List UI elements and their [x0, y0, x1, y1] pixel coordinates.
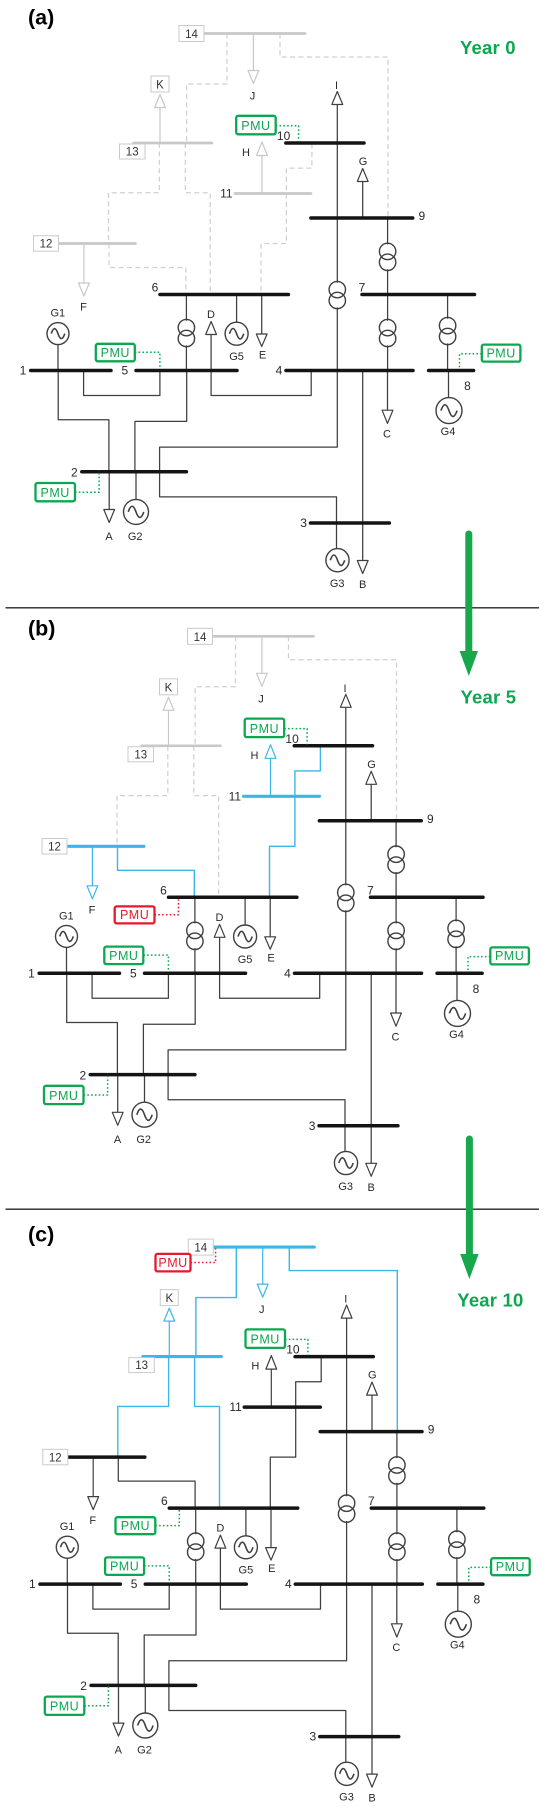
svg-text:1: 1 — [28, 966, 35, 980]
svg-text:Year 5: Year 5 — [461, 687, 517, 708]
load D at bus 4 — [215, 1523, 321, 1610]
wire 1-5 — [84, 371, 160, 396]
transformer 5-6 — [188, 1508, 204, 1584]
wire 2-4 — [169, 1584, 347, 1685]
bus 2 — [80, 1679, 195, 1693]
wire 2-3 — [160, 472, 337, 523]
generator G5 — [225, 295, 248, 364]
svg-text:12: 12 — [49, 1452, 62, 1464]
svg-text:C: C — [392, 1031, 400, 1043]
load I at bus 10 — [341, 1294, 352, 1357]
transformer 7-8 — [439, 295, 455, 371]
generator G4 — [436, 371, 462, 439]
svg-text:PMU: PMU — [109, 949, 138, 963]
bus 9 — [320, 1423, 435, 1437]
svg-text:5: 5 — [130, 966, 137, 980]
bus 11 — [229, 1400, 320, 1414]
svg-text:14: 14 — [185, 29, 198, 41]
svg-text:(c): (c) — [28, 1223, 54, 1247]
wire 1-5 — [93, 1584, 169, 1609]
svg-text:6: 6 — [161, 1494, 168, 1508]
svg-text:13: 13 — [135, 1360, 148, 1372]
wire 13-6 — [195, 1357, 220, 1509]
svg-text:7: 7 — [368, 1494, 375, 1508]
svg-text:G1: G1 — [59, 910, 74, 922]
bus 13 — [128, 746, 221, 762]
svg-text:B: B — [368, 1793, 375, 1805]
svg-text:Year 0: Year 0 — [460, 37, 516, 58]
wire 5-2 — [143, 973, 195, 1074]
svg-text:J: J — [250, 91, 256, 103]
svg-text:I: I — [335, 80, 338, 92]
svg-text:A: A — [115, 1745, 123, 1757]
transformer 7-8 — [449, 1508, 465, 1584]
PMU at bus 8 — [469, 1558, 530, 1582]
svg-text:1: 1 — [29, 1577, 36, 1591]
load G at bus 9 — [366, 759, 377, 821]
svg-text:PMU: PMU — [41, 486, 70, 500]
PMU at bus 6 — [115, 899, 179, 924]
wire 10-9 — [336, 143, 338, 218]
bus 2 — [79, 1068, 194, 1082]
bus 7 — [359, 281, 475, 295]
PMU at bus 8 — [460, 345, 521, 369]
PMU at bus 5 — [104, 947, 168, 972]
svg-text:F: F — [89, 1515, 96, 1527]
wire 11-6 — [270, 796, 295, 897]
svg-text:G: G — [359, 156, 368, 168]
svg-text:6: 6 — [160, 883, 167, 897]
svg-text:12: 12 — [48, 842, 61, 854]
svg-text:F: F — [80, 302, 87, 314]
separator line 2 — [6, 1208, 539, 1210]
PMU at bus 2 — [45, 1684, 109, 1715]
load F at bus 12 — [79, 244, 90, 314]
svg-text:A: A — [114, 1134, 122, 1146]
generator G3 — [335, 1737, 358, 1804]
wire 10-9 — [345, 746, 347, 821]
svg-text:4: 4 — [284, 966, 291, 980]
wire 1-2 — [67, 973, 118, 1074]
year label Year 10 — [457, 1290, 523, 1311]
separator line 1 — [6, 607, 539, 609]
PMU at bus 6 — [116, 1509, 180, 1534]
svg-text:PMU: PMU — [241, 119, 270, 133]
bus 5 — [130, 966, 246, 980]
wire 1-5 — [92, 973, 168, 998]
wire 5-2 — [135, 371, 187, 472]
generator G1 — [56, 1521, 78, 1584]
svg-text:11: 11 — [229, 789, 242, 803]
bus 11 — [220, 187, 311, 201]
svg-text:K: K — [165, 682, 173, 694]
wire 2-3 — [168, 1075, 345, 1126]
wire 1-2 — [58, 371, 109, 472]
load B at bus 4 — [366, 973, 377, 1194]
svg-text:G5: G5 — [238, 954, 253, 966]
svg-text:10: 10 — [285, 732, 299, 746]
generator G1 — [47, 308, 69, 371]
load G at bus 9 — [357, 156, 368, 218]
wire 14-9 — [289, 636, 397, 821]
generator G2 — [133, 1685, 158, 1756]
wire 13-12 — [109, 143, 160, 244]
year label Year 0 — [460, 37, 516, 58]
bus 13 — [120, 143, 213, 159]
svg-text:J: J — [258, 693, 264, 705]
load B at bus 4 — [357, 371, 368, 592]
svg-text:F: F — [89, 904, 96, 916]
svg-text:9: 9 — [428, 1423, 435, 1437]
svg-text:E: E — [259, 350, 266, 362]
svg-text:2: 2 — [79, 1068, 86, 1082]
green arrow Year 5 to Year 10 — [460, 1139, 478, 1279]
load E at bus 6 — [256, 295, 267, 362]
svg-text:C: C — [392, 1642, 400, 1654]
svg-text:G5: G5 — [229, 351, 244, 363]
svg-text:8: 8 — [473, 982, 480, 996]
svg-text:PMU: PMU — [120, 908, 149, 922]
bus 12 — [34, 236, 136, 252]
svg-text:PMU: PMU — [158, 1256, 187, 1270]
transformer 5-6 — [178, 295, 194, 371]
load K at bus 13 — [151, 76, 169, 143]
load J at bus 14 — [257, 636, 268, 705]
svg-text:D: D — [216, 1523, 224, 1535]
wire 13-6 — [185, 143, 210, 295]
svg-text:I: I — [343, 683, 346, 695]
wire 14-13 — [187, 34, 227, 144]
svg-text:5: 5 — [121, 364, 128, 378]
load J at bus 14 — [257, 1247, 268, 1316]
svg-text:K: K — [165, 1293, 173, 1305]
bus 8 — [437, 973, 482, 996]
load J at bus 14 — [248, 34, 259, 103]
wire 12-6 — [109, 244, 186, 295]
load A at bus 2 — [104, 472, 115, 543]
svg-text:11: 11 — [220, 187, 233, 201]
load H at bus 11 — [242, 142, 267, 194]
load I at bus 10 — [332, 80, 343, 143]
PMU at bus 5 — [96, 344, 160, 369]
svg-text:8: 8 — [464, 379, 471, 393]
svg-text:2: 2 — [71, 466, 78, 480]
svg-text:3: 3 — [309, 1119, 316, 1133]
svg-text:PMU: PMU — [49, 1089, 78, 1103]
load K at bus 13 — [160, 1290, 178, 1357]
bus 10 — [286, 1343, 373, 1357]
wire 14-13 — [196, 1247, 236, 1357]
generator G5 — [234, 1508, 257, 1577]
year label Year 5 — [461, 687, 517, 708]
svg-text:6: 6 — [152, 281, 159, 295]
wire 5-2 — [144, 1584, 196, 1685]
svg-text:PMU: PMU — [250, 722, 279, 736]
green arrow Year 0 to Year 5 — [460, 534, 478, 676]
svg-text:A: A — [105, 531, 113, 543]
transformer 7-9 — [389, 1432, 405, 1509]
svg-text:G2: G2 — [136, 1134, 151, 1146]
load A at bus 2 — [113, 1685, 124, 1756]
svg-text:G1: G1 — [50, 308, 65, 320]
bus 10 — [277, 129, 364, 143]
generator G2 — [132, 1075, 157, 1146]
bus 6 — [152, 281, 289, 295]
bus 14 — [188, 628, 314, 644]
svg-text:Year 10: Year 10 — [457, 1290, 523, 1311]
bus 10 — [285, 732, 372, 746]
bus 6 — [161, 1494, 298, 1508]
transformer 4-9 — [338, 821, 354, 974]
bus 4 — [284, 966, 421, 980]
svg-text:12: 12 — [40, 239, 53, 251]
svg-text:4: 4 — [276, 364, 283, 378]
svg-text:G3: G3 — [338, 1181, 353, 1193]
svg-text:PMU: PMU — [121, 1519, 150, 1533]
transformer 5-6 — [187, 897, 203, 973]
svg-text:I: I — [344, 1294, 347, 1306]
svg-text:PMU: PMU — [101, 346, 130, 360]
svg-text:G4: G4 — [450, 1640, 465, 1652]
wire 2-4 — [160, 371, 338, 472]
panel label (c) — [28, 1223, 54, 1247]
svg-text:H: H — [251, 1361, 259, 1373]
transformer 4-9 — [329, 218, 345, 371]
bus 1 — [20, 364, 111, 378]
bus 9 — [319, 812, 434, 826]
panel label (a) — [28, 6, 54, 30]
wire 10-11 — [286, 144, 312, 194]
bus 7 — [368, 1494, 484, 1508]
bus 14 — [188, 1239, 314, 1255]
svg-text:(b): (b) — [28, 617, 55, 641]
PMU at bus 10 — [236, 116, 298, 142]
svg-text:G: G — [367, 759, 376, 771]
load I at bus 10 — [340, 683, 351, 746]
svg-text:1: 1 — [20, 364, 27, 378]
svg-text:5: 5 — [131, 1577, 138, 1591]
wire 13-6 — [194, 746, 219, 898]
wire 14-13 — [195, 636, 235, 746]
svg-text:G5: G5 — [239, 1565, 254, 1577]
bus 6 — [160, 883, 297, 897]
transformer 4-7 — [389, 1508, 405, 1584]
load H at bus 11 — [251, 745, 276, 797]
wire 13-12 — [118, 1357, 169, 1458]
bus 8 — [438, 1584, 483, 1607]
svg-text:14: 14 — [194, 632, 207, 644]
svg-text:E: E — [268, 1563, 275, 1575]
PMU at bus 10 — [246, 1329, 308, 1355]
svg-text:K: K — [156, 80, 164, 92]
bus 13 — [129, 1357, 222, 1373]
PMU at bus 10 — [245, 719, 307, 745]
bus 12 — [42, 839, 144, 855]
generator G3 — [326, 523, 349, 590]
bus 1 — [29, 1577, 120, 1591]
svg-text:PMU: PMU — [486, 346, 515, 360]
svg-text:13: 13 — [126, 147, 139, 159]
PMU at bus 5 — [105, 1557, 169, 1582]
svg-text:(a): (a) — [28, 6, 54, 30]
svg-text:9: 9 — [427, 812, 434, 826]
generator G4 — [445, 1584, 471, 1652]
transformer 4-7 — [388, 897, 404, 973]
bus 8 — [429, 371, 474, 394]
svg-text:9: 9 — [418, 209, 425, 223]
load G at bus 9 — [367, 1370, 378, 1432]
svg-text:B: B — [368, 1182, 375, 1194]
load K at bus 13 — [160, 679, 178, 746]
svg-text:D: D — [207, 309, 215, 321]
transformer 7-8 — [448, 897, 464, 973]
wire 10-11 — [295, 746, 321, 796]
svg-text:PMU: PMU — [110, 1560, 139, 1574]
transformer 4-9 — [338, 1432, 354, 1585]
load C at bus 4 — [391, 1584, 402, 1654]
load C at bus 4 — [391, 973, 402, 1043]
wire 13-12 — [117, 746, 168, 847]
wire 14-9 — [280, 34, 388, 219]
svg-text:PMU: PMU — [50, 1700, 79, 1714]
wire 12-6 — [118, 846, 195, 897]
svg-text:G2: G2 — [128, 531, 143, 543]
wire 11-6 — [261, 194, 286, 295]
bus 1 — [28, 966, 119, 980]
wire 11-6 — [270, 1407, 295, 1508]
PMU at bus 14 — [156, 1248, 216, 1271]
svg-text:2: 2 — [80, 1679, 87, 1693]
svg-text:G3: G3 — [339, 1792, 354, 1804]
generator G5 — [234, 897, 257, 966]
bus 5 — [121, 364, 237, 378]
wire 1-2 — [68, 1584, 119, 1685]
svg-text:H: H — [242, 147, 250, 159]
svg-text:G4: G4 — [449, 1029, 464, 1041]
bus 3 — [310, 1730, 399, 1744]
wire 12-6 — [118, 1457, 195, 1508]
wire 10-11 — [296, 1357, 322, 1407]
load F at bus 12 — [88, 1457, 99, 1527]
bus 12 — [43, 1449, 145, 1465]
bus 7 — [367, 883, 483, 897]
svg-text:PMU: PMU — [251, 1333, 280, 1347]
svg-text:B: B — [359, 579, 366, 591]
load E at bus 6 — [266, 1508, 277, 1575]
load C at bus 4 — [382, 371, 393, 441]
generator G1 — [56, 910, 78, 973]
load F at bus 12 — [87, 846, 98, 916]
transformer 7-9 — [379, 218, 395, 295]
transformer 4-7 — [379, 295, 395, 371]
panel label (b) — [28, 617, 55, 641]
load D at bus 4 — [214, 912, 320, 999]
bus 3 — [309, 1119, 398, 1133]
svg-text:PMU: PMU — [495, 949, 524, 963]
svg-text:7: 7 — [367, 883, 374, 897]
svg-text:14: 14 — [194, 1243, 207, 1255]
svg-text:G3: G3 — [330, 578, 345, 590]
load D at bus 4 — [206, 309, 312, 396]
generator G3 — [334, 1126, 357, 1193]
PMU at bus 2 — [44, 1073, 108, 1104]
svg-text:PMU: PMU — [496, 1560, 525, 1574]
PMU at bus 8 — [468, 947, 529, 971]
wire 10-9 — [346, 1357, 348, 1432]
load E at bus 6 — [265, 897, 276, 964]
wire 2-3 — [169, 1685, 346, 1736]
generator G2 — [124, 472, 149, 543]
bus 5 — [131, 1577, 247, 1591]
svg-text:H: H — [251, 750, 259, 762]
svg-text:3: 3 — [310, 1730, 317, 1744]
bus 9 — [311, 209, 426, 223]
svg-text:C: C — [383, 429, 391, 441]
svg-text:7: 7 — [359, 281, 366, 295]
svg-text:3: 3 — [300, 516, 307, 530]
bus 4 — [285, 1577, 422, 1591]
bus 11 — [229, 789, 320, 803]
PMU at bus 2 — [36, 471, 100, 502]
svg-text:G1: G1 — [60, 1521, 75, 1533]
bus 3 — [300, 516, 389, 530]
load H at bus 11 — [251, 1356, 276, 1408]
wire 2-4 — [168, 973, 346, 1074]
svg-text:11: 11 — [229, 1400, 242, 1414]
bus 14 — [179, 26, 305, 42]
svg-text:G4: G4 — [441, 426, 456, 438]
generator G4 — [445, 973, 471, 1041]
svg-text:G: G — [368, 1370, 377, 1382]
bus 4 — [276, 364, 413, 378]
svg-text:J: J — [259, 1304, 265, 1316]
load A at bus 2 — [112, 1075, 123, 1146]
transformer 7-9 — [388, 821, 404, 898]
wire 14-9 — [289, 1247, 397, 1432]
svg-text:8: 8 — [473, 1593, 480, 1607]
bus 2 — [71, 466, 186, 480]
svg-text:G2: G2 — [137, 1745, 152, 1757]
svg-text:13: 13 — [134, 749, 147, 761]
svg-text:10: 10 — [286, 1343, 300, 1357]
svg-text:4: 4 — [285, 1577, 292, 1591]
svg-text:E: E — [267, 952, 274, 964]
load B at bus 4 — [367, 1584, 378, 1805]
svg-text:D: D — [216, 912, 224, 924]
svg-text:10: 10 — [277, 129, 291, 143]
